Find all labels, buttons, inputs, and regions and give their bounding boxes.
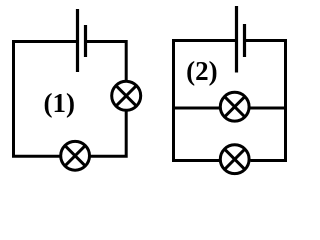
battery B2 long plate (positive) bbox=[235, 6, 238, 73]
battery B1 short plate (negative) bbox=[84, 25, 87, 57]
wire: circuit 1 below lamp L1 to bottom, to lamp L2 right side bbox=[91, 112, 127, 157]
lamp L3 (circuit 2 middle branch) bbox=[220, 92, 249, 121]
lamp L2 (circuit 1 bottom) bbox=[61, 141, 90, 170]
wire: circuit 2 top-left, left side, bottom-left to lamp L4 bbox=[174, 41, 236, 161]
battery B2 short plate (negative) bbox=[243, 24, 246, 57]
wire: circuit 1 left+top+bottom (top-left corner loop) bbox=[14, 42, 77, 157]
lamp L1 (circuit 1 right side) bbox=[112, 81, 141, 110]
wire: circuit 1 top-right and down to lamp L1 bbox=[87, 42, 126, 81]
svg-text:(2): (2) bbox=[186, 56, 217, 86]
lamp L4 (circuit 2 bottom branch) bbox=[220, 145, 249, 174]
wire: circuit 2 middle branch right segment bbox=[250, 107, 287, 110]
wire: circuit 2 top-right, right side, bottom-right to lamp L4 bbox=[246, 41, 286, 161]
battery B1 long plate (positive) bbox=[76, 9, 79, 72]
svg-text:(1): (1) bbox=[44, 88, 75, 118]
wire: circuit 2 middle branch left segment bbox=[172, 107, 220, 110]
